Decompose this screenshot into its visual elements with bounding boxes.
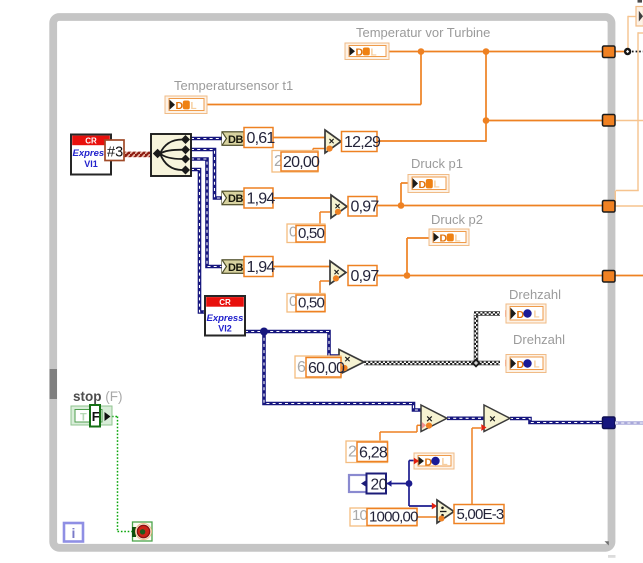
- svg-text:D: D: [176, 100, 184, 112]
- svg-text:L: L: [371, 47, 377, 58]
- svg-text:10: 10: [352, 507, 368, 524]
- svg-text:F: F: [92, 409, 100, 424]
- svg-text:DB: DB: [228, 262, 243, 274]
- svg-text:Drehzahl: Drehzahl: [513, 332, 565, 347]
- svg-text:Temperatursensor t1: Temperatursensor t1: [174, 78, 293, 93]
- svg-text:L: L: [434, 180, 440, 191]
- svg-text:1,94: 1,94: [247, 259, 276, 276]
- svg-text:D: D: [517, 309, 525, 321]
- svg-text:1,94: 1,94: [247, 190, 276, 207]
- svg-text:D: D: [517, 359, 525, 371]
- svg-text:D: D: [356, 47, 364, 59]
- svg-text:Express: Express: [73, 148, 110, 159]
- svg-text:6,28: 6,28: [359, 445, 388, 462]
- svg-text:Temperatur vor Turbine: Temperatur vor Turbine: [356, 25, 490, 40]
- svg-text:×: ×: [489, 414, 495, 426]
- svg-text:L: L: [191, 101, 197, 112]
- svg-text:DB: DB: [228, 193, 243, 205]
- svg-text:60,00: 60,00: [308, 360, 345, 377]
- svg-text:D: D: [419, 179, 427, 191]
- svg-text:VI2: VI2: [218, 324, 232, 334]
- svg-text:5,00E-3: 5,00E-3: [457, 506, 504, 523]
- svg-text:DB: DB: [228, 134, 243, 146]
- svg-text:Druck p2: Druck p2: [431, 212, 483, 227]
- svg-text:2: 2: [348, 443, 357, 460]
- svg-text:6: 6: [297, 359, 306, 376]
- svg-text:L: L: [534, 360, 540, 371]
- svg-text:0,97: 0,97: [351, 268, 380, 285]
- svg-text:D: D: [425, 456, 433, 468]
- svg-text:CR: CR: [85, 136, 97, 145]
- svg-text:0,50: 0,50: [298, 295, 324, 312]
- svg-text:T: T: [80, 412, 87, 424]
- svg-text:Drehzahl: Drehzahl: [509, 287, 561, 302]
- svg-text:0,50: 0,50: [298, 225, 324, 242]
- svg-text:L: L: [534, 310, 540, 321]
- svg-text:#3: #3: [107, 145, 123, 161]
- svg-text:VI1: VI1: [84, 159, 98, 169]
- svg-text:stop (F): stop (F): [73, 389, 123, 404]
- svg-text:20: 20: [371, 477, 388, 494]
- svg-text:i: i: [72, 525, 76, 541]
- svg-text:×: ×: [344, 354, 350, 366]
- svg-text:0,97: 0,97: [351, 198, 380, 215]
- svg-text:12,29: 12,29: [344, 134, 381, 151]
- svg-text:CR: CR: [219, 298, 231, 307]
- svg-text:20,00: 20,00: [283, 154, 320, 171]
- svg-text:Druck p1: Druck p1: [411, 156, 463, 171]
- svg-text:1000,00: 1000,00: [369, 509, 418, 526]
- svg-text:L: L: [455, 233, 461, 244]
- svg-text:Express: Express: [207, 313, 244, 324]
- svg-text:L: L: [442, 457, 448, 468]
- svg-text:0,61: 0,61: [247, 130, 276, 147]
- svg-text:D: D: [440, 233, 448, 245]
